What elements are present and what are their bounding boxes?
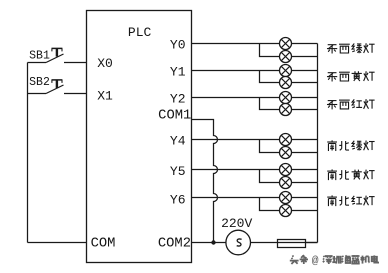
wire Y6 branch bracket [260, 198, 318, 211]
lamp HL6 EW red bottom [280, 104, 292, 116]
PLC box U1 [87, 11, 192, 263]
svg-text:COM1: COM1 [158, 109, 191, 124]
svg-text:COM: COM [91, 236, 116, 251]
wire Y5 branch bracket [260, 170, 318, 183]
svg-text:@: @ [312, 255, 319, 267]
wire COM1 to bus with hops [192, 120, 218, 243]
wire Y5 row [192, 169, 318, 171]
fuse FU1 [278, 240, 306, 248]
lamp HL11 NS red top [280, 192, 292, 204]
lamp HL1 EW green top [280, 38, 292, 50]
wire fuse to bus [306, 242, 318, 244]
wire Y0 row [192, 43, 318, 45]
wire COM2 output [192, 242, 226, 244]
svg-text:SB1: SB1 [29, 49, 50, 62]
svg-text:SB2: SB2 [29, 76, 50, 89]
svg-text:220V: 220V [221, 216, 252, 231]
lamp HL4 EW yellow bottom [280, 77, 292, 89]
svg-text:Y6: Y6 [170, 192, 186, 207]
right lamp bus wire [317, 44, 319, 243]
lamp HL8 NS green bottom [280, 147, 292, 159]
wire Y2 branch bracket [260, 98, 318, 110]
left input bus wire [27, 63, 29, 243]
wire source to fuse [251, 242, 318, 244]
wire Y1 row [192, 70, 318, 72]
svg-text:COM2: COM2 [158, 236, 191, 251]
svg-text:Y2: Y2 [170, 92, 186, 107]
svg-text:Y1: Y1 [170, 65, 186, 80]
svg-text:Y0: Y0 [170, 38, 186, 53]
lamp HL7 NS green top [280, 134, 292, 146]
wire COM input [28, 242, 87, 244]
lamp HL9 NS yellow top [280, 164, 292, 176]
lamp HL10 NS yellow bottom [280, 177, 292, 189]
wire Y1 branch bracket [260, 71, 318, 83]
svg-text:PLC: PLC [128, 25, 152, 40]
SB2 actuator [52, 80, 63, 88]
label EW red lamp 东西红灯 [327, 99, 375, 109]
wire Y4 row [192, 139, 318, 141]
label EW green lamp 东西绿灯 [327, 43, 375, 53]
pushbutton SB1 [28, 54, 87, 63]
svg-text:Y4: Y4 [170, 134, 186, 149]
label NS red lamp 南北红灯 [327, 195, 374, 206]
svg-text:X1: X1 [97, 88, 113, 103]
svg-text:Y5: Y5 [170, 164, 186, 179]
AC source 220V [226, 230, 251, 255]
wire Y6 row [192, 197, 318, 199]
watermark 头条 @深圳海蓝机电 [290, 255, 378, 267]
pushbutton SB2 [28, 85, 87, 94]
lamp HL12 NS red bottom [280, 205, 292, 217]
label NS yellow lamp 南北黄灯 [327, 169, 374, 180]
junction dot COM2/COM1 bus [211, 240, 215, 244]
wire Y2 row [192, 97, 318, 99]
label EW yellow lamp 东西黄灯 [327, 71, 375, 81]
lamp HL3 EW yellow top [280, 65, 292, 77]
svg-text:X0: X0 [97, 56, 113, 71]
wire Y0 branch bracket [260, 44, 318, 57]
lamp HL5 EW red top [280, 92, 292, 104]
wire Y4 branch bracket [260, 140, 318, 153]
SB1 actuator [52, 48, 63, 56]
lamp HL2 EW green bottom [280, 51, 292, 63]
label NS green lamp 南北绿灯 [327, 140, 374, 151]
